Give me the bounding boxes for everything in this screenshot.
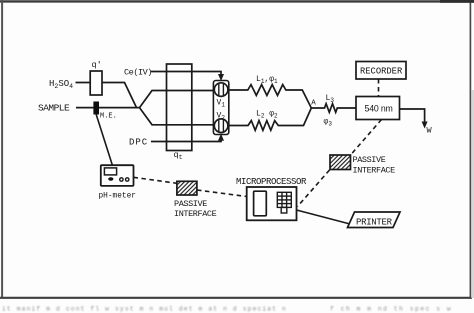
passive interface 1 box — [177, 181, 197, 195]
svg-text:MICROPROCESSOR: MICROPROCESSOR — [236, 177, 307, 187]
reaction coil L2 — [228, 108, 311, 130]
svg-text:q': q' — [92, 60, 102, 70]
caption text (blurred scan remnant) — [2, 306, 452, 313]
injection valve V2 — [214, 119, 228, 133]
wire passive interface 2 to microprocessor (dashed) — [298, 170, 330, 207]
wire sample line — [76, 107, 140, 109]
svg-text:RECORDER: RECORDER — [360, 67, 403, 77]
arrow Ce(IV) into valve — [218, 74, 224, 81]
wire DPC line — [151, 141, 221, 142]
wire Ce(IV) line — [151, 72, 221, 76]
recorder box — [356, 62, 406, 80]
injection valve V1 — [214, 83, 228, 97]
svg-text:PASSIVE: PASSIVE — [353, 155, 386, 165]
printer box — [348, 212, 401, 228]
pulse damper q' — [90, 71, 102, 95]
svg-text:SAMPLE: SAMPLE — [38, 103, 70, 114]
wire passive interface 1 to microprocessor (dashed) — [197, 190, 247, 197]
pH-meter button — [108, 177, 113, 180]
pH-meter knob 1 — [120, 178, 123, 181]
pH-meter display — [104, 168, 116, 175]
wire pH-meter to passive interface 1 (dashed) — [134, 177, 178, 183]
svg-text:DPC: DPC — [129, 138, 148, 148]
wire detector to passive interface 2 (dashed) — [351, 120, 382, 155]
detector 540 nm — [356, 97, 400, 120]
microprocessor box — [247, 187, 297, 220]
reaction coil L3 — [311, 104, 356, 113]
wire junction to upper pump channel — [140, 91, 215, 108]
arrow DPC into valve — [218, 134, 224, 141]
svg-text:Ce(IV): Ce(IV) — [124, 68, 152, 78]
wire H2SO4 carrier line — [76, 83, 137, 108]
svg-text:A: A — [311, 100, 316, 108]
microprocessor display — [254, 191, 267, 216]
wire detector to recorder (dashed) — [378, 79, 380, 97]
electrode M.E. — [93, 102, 99, 115]
wire waste line — [400, 109, 425, 123]
svg-text:540 nm: 540 nm — [365, 104, 393, 114]
svg-text:INTERFACE: INTERFACE — [353, 166, 396, 176]
svg-text:it manif m d cont fl w syst m: it manif m d cont fl w syst m n mul det … — [2, 306, 287, 313]
svg-text:INTERFACE: INTERFACE — [174, 209, 217, 219]
svg-text:pH-meter: pH-meter — [99, 193, 136, 201]
wire microprocessor to printer — [297, 210, 351, 224]
svg-text:M.E.: M.E. — [100, 113, 117, 121]
svg-text:f ch m m nd th spec s w: f ch m m nd th spec s w — [330, 306, 452, 313]
svg-text:PRINTER: PRINTER — [356, 217, 393, 227]
passive interface 2 box — [330, 155, 351, 170]
svg-text:W: W — [427, 126, 433, 136]
pH-meter knob 2 — [126, 178, 129, 181]
pH-meter box — [101, 165, 134, 186]
pump q_t — [167, 64, 192, 151]
arrow waste — [422, 122, 428, 129]
valve block — [213, 81, 228, 135]
wire junction to lower pump channel — [140, 108, 215, 125]
wire M.E. to pH-meter — [96, 115, 112, 166]
reaction coil L1 — [228, 85, 311, 108]
microprocessor keypad — [277, 192, 291, 213]
svg-text:PASSIVE: PASSIVE — [174, 199, 207, 209]
